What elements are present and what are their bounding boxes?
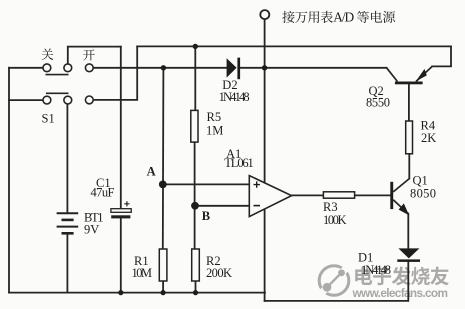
- terminal circle: [260, 10, 269, 19]
- wire: R1 bottom to ground: [162, 281, 164, 293]
- wire: switch bottom pole3 right and up to +V rail: [93, 46, 137, 100]
- switch contact: top pole 3: [85, 64, 93, 72]
- svg-text:9V: 9V: [84, 223, 99, 237]
- D1 cathode bar: [397, 259, 420, 262]
- Q1 emitter diagonal: [393, 200, 408, 214]
- battery plate short 2: [62, 232, 74, 235]
- svg-text:1N4148: 1N4148: [219, 90, 250, 104]
- battery plate short 1: [62, 219, 74, 222]
- wire: node A branch vertical x=162.9: [162, 68, 165, 249]
- svg-text:Q1: Q1: [413, 174, 428, 188]
- op-amp triangle: [249, 176, 291, 217]
- wire: D2 cathode to Q2 collector rail: [240, 67, 387, 69]
- op-amp - input symbol: [254, 205, 261, 207]
- junction dot: R1 on ground rail: [161, 290, 166, 295]
- switch contact: top pole 1: [43, 64, 51, 72]
- wire: switch top pole3 right to D2 anode rail: [93, 67, 226, 69]
- wire: battery - down to ground rail: [66, 234, 68, 293]
- svg-text:8550: 8550: [366, 96, 390, 110]
- svg-text:S1: S1: [42, 112, 55, 126]
- wire: top-left lead to switch top pole1: [9, 67, 43, 69]
- svg-text:A/D: A/D: [333, 10, 354, 25]
- Q2 base bar: [395, 82, 423, 85]
- battery plate long 2: [57, 226, 79, 228]
- Q2 collector diagonal to left rail: [387, 68, 398, 82]
- junction dot: R2 on ground rail: [193, 290, 198, 295]
- D2 cathode bar: [237, 58, 240, 80]
- svg-text:R3: R3: [323, 200, 338, 214]
- svg-text:B: B: [202, 209, 210, 223]
- svg-text:1M: 1M: [206, 124, 223, 138]
- switch contact: bottom pole 3: [85, 96, 93, 104]
- label 接万用表A/D等电源: [282, 11, 294, 23]
- wire: switch bottom pole2 down to battery +: [66, 104, 68, 213]
- wire: switch top pole2 up and over to C1 branch: [68, 47, 121, 64]
- switch blade top (closed 1-2, drawn below circles): [46, 74, 69, 76]
- switch contact: top pole 2: [64, 64, 72, 72]
- switch contact: bottom pole 2: [64, 96, 72, 104]
- wire: R4 bottom to Q1 collector: [408, 154, 410, 179]
- op-amp + input symbol: [254, 181, 261, 187]
- node B junction dot: [191, 202, 199, 210]
- svg-text:100K: 100K: [323, 213, 347, 227]
- Q2 emitter arrowhead: [416, 69, 427, 82]
- svg-text:1N4148: 1N4148: [361, 263, 391, 277]
- junction dot: cathode rail meets terminal vertical: [262, 65, 267, 70]
- node A junction dot: [159, 181, 167, 189]
- wire: op-amp output to R3: [292, 194, 324, 196]
- C1 plus sign: [124, 201, 129, 206]
- svg-text:A: A: [147, 165, 156, 179]
- wire: Q1 emitter down to D1: [407, 214, 409, 249]
- Q1 collector diagonal: [393, 179, 409, 192]
- svg-text:2K: 2K: [421, 131, 436, 145]
- wire: C1 bottom to ground rail: [120, 218, 122, 292]
- svg-text:47uF: 47uF: [91, 186, 115, 200]
- junction dot on +V rail above R5: [193, 44, 198, 49]
- wire: R4 top to Q2 base: [408, 84, 410, 121]
- label 关: [42, 48, 54, 60]
- wire: +V rail corner down to Q2 emitter: [432, 46, 451, 66]
- wire: +V top rail y=46.4: [137, 45, 451, 47]
- watermark logo circle: [319, 266, 349, 296]
- Q2 emitter diagonal from top-right corner: [416, 66, 432, 81]
- switch contact: bottom pole 1: [43, 96, 51, 104]
- Q1 base bar: [390, 182, 393, 209]
- wire: C1 branch vertical x=120.8: [120, 47, 122, 209]
- svg-text:200K: 200K: [206, 266, 232, 280]
- wire: R5/B branch vertical: [194, 46, 196, 110]
- svg-text:8050: 8050: [410, 187, 436, 201]
- wire: node B to op-amp - input: [195, 205, 249, 207]
- Q1 emitter arrowhead: [399, 203, 410, 215]
- watermark text 电子发烧友: [355, 267, 449, 286]
- wire: node A to op-amp + input: [163, 183, 249, 185]
- svg-text:10M: 10M: [132, 266, 153, 280]
- battery plate long 1: [57, 212, 79, 214]
- wire: R3 to Q1 base: [355, 194, 390, 196]
- svg-text:www.elecfans.com: www.elecfans.com: [352, 286, 449, 300]
- C1 bottom plate (solid): [111, 215, 130, 218]
- wire: bottom ground rail: [9, 292, 265, 294]
- wire: bottom-left lead to switch bottom pole1: [9, 99, 43, 101]
- junction dot on D2 rail above A: [161, 65, 166, 70]
- watermark logo dots: [323, 269, 345, 291]
- switch blade bottom (closed 1-2, drawn above circles): [46, 92, 69, 94]
- junction dot: C1 on ground rail: [118, 290, 123, 295]
- D2 triangle: [227, 58, 237, 77]
- wire: R2 bottom to ground: [195, 281, 197, 293]
- wire: terminal vertical x=264.6: [264, 19, 266, 301]
- wire: lower ground jog to D1 cathode: [265, 262, 409, 301]
- D1 triangle: [398, 248, 419, 258]
- svg-text:R5: R5: [207, 110, 222, 124]
- label 开: [83, 49, 95, 60]
- svg-text:TL061: TL061: [224, 156, 254, 170]
- wire: left vertical rail x=9: [8, 68, 10, 293]
- C1 top plate (hollow): [111, 209, 131, 213]
